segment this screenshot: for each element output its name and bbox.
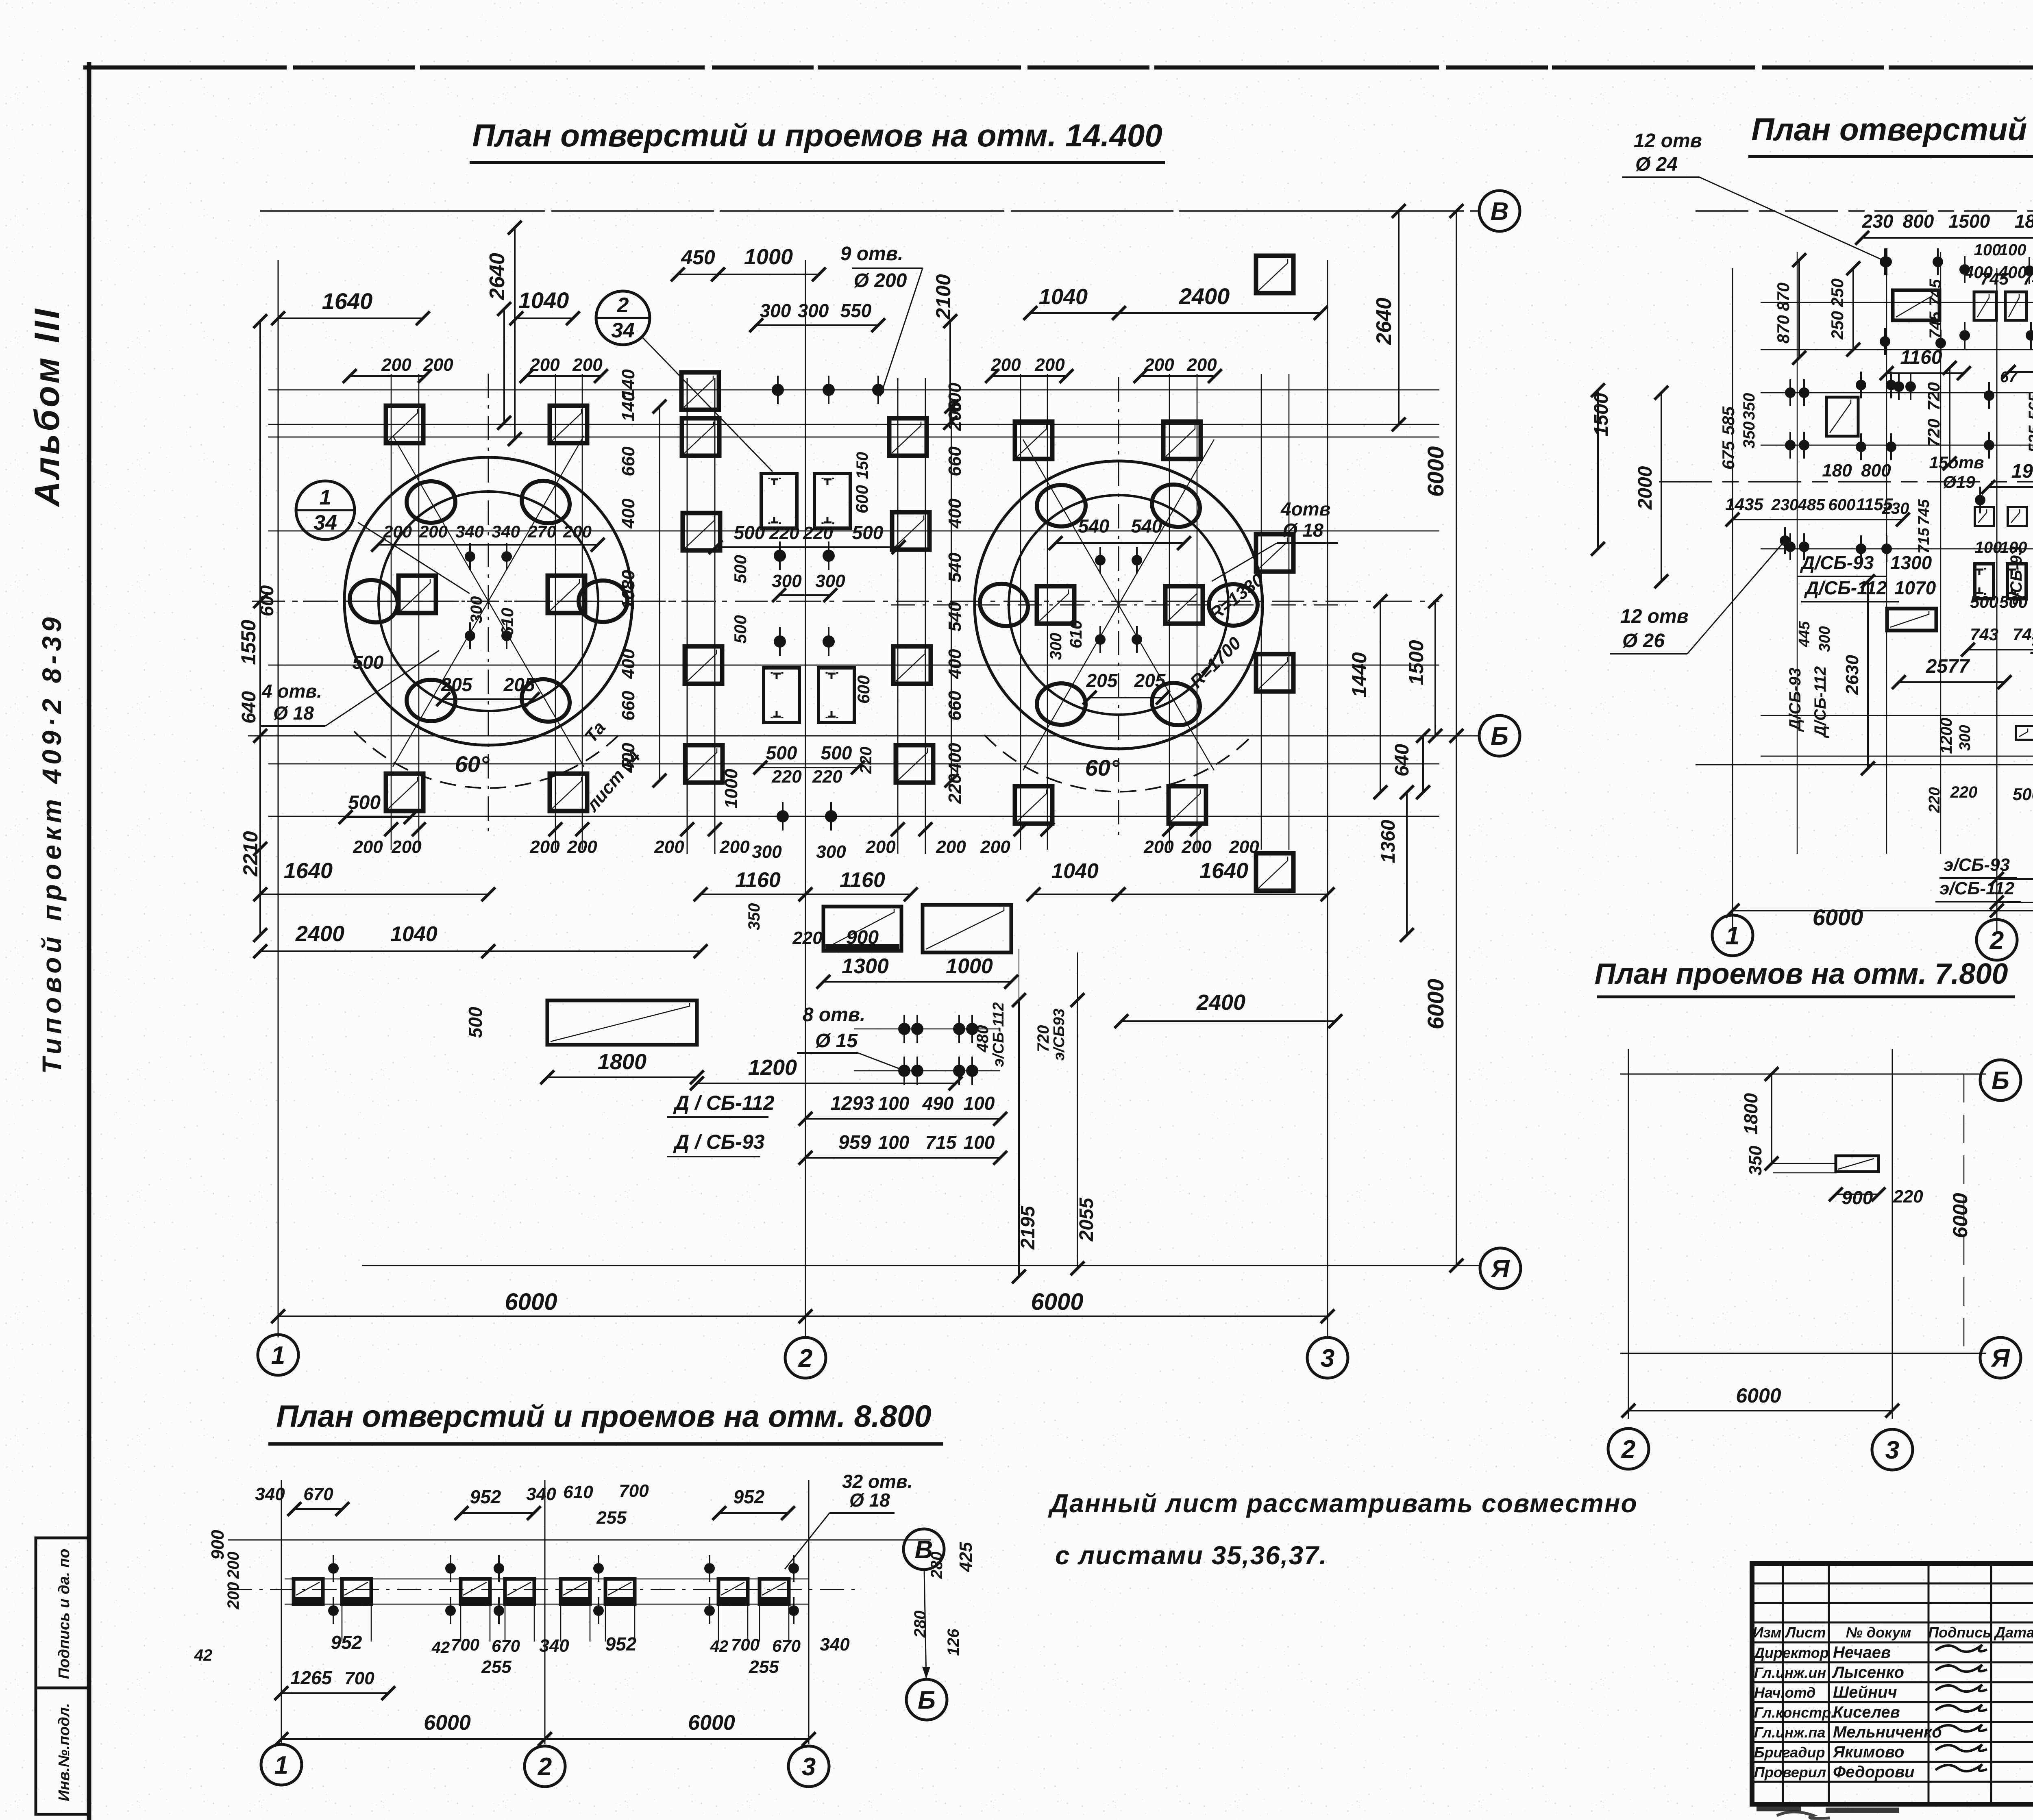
svg-text:610: 610: [498, 608, 517, 636]
svg-text:Я: Я: [1990, 1344, 2010, 1372]
bottom dim line right plan: [1733, 910, 2033, 911]
svg-text:500: 500: [1970, 592, 1998, 611]
svg-text:300: 300: [815, 571, 845, 591]
svg-text:300: 300: [1047, 633, 1065, 660]
svg-text:255: 255: [481, 1657, 512, 1677]
svg-text:220: 220: [771, 767, 802, 787]
extra chain ticks bottom row: [384, 822, 398, 836]
svg-text:540: 540: [1131, 515, 1162, 537]
svg-text:720: 720: [1924, 382, 1943, 411]
svg-text:220: 220: [812, 767, 842, 787]
grid bubble A: [1480, 1248, 1521, 1289]
svg-text:1550: 1550: [237, 620, 260, 665]
svg-text:800: 800: [1903, 211, 1934, 232]
svg-text:1000: 1000: [946, 955, 993, 978]
svg-text:500: 500: [2013, 785, 2033, 804]
square legs vertical lines: [687, 378, 688, 854]
svg-text:2577: 2577: [1926, 656, 1970, 677]
svg-text:№ докум: № докум: [1846, 1624, 1911, 1641]
svg-text:715: 715: [1915, 527, 1933, 553]
svg-text:340: 340: [455, 522, 484, 541]
svg-text:1080: 1080: [618, 570, 638, 610]
strip plan opening rects: [294, 1579, 323, 1604]
strip plan bubble 2: [525, 1746, 565, 1787]
svg-text:2640: 2640: [1372, 298, 1396, 345]
radial lines: [1119, 439, 1214, 605]
title block outer frame: [1752, 1563, 2033, 1804]
flag 2/34 with leader: [596, 291, 650, 345]
grid bubble 2 bottom: [785, 1337, 826, 1378]
svg-text:500: 500: [852, 522, 884, 543]
svg-text:1293: 1293: [831, 1093, 874, 1114]
4 bolt dots: [465, 551, 475, 562]
svg-text:Ø 18: Ø 18: [1283, 520, 1323, 541]
axis line 3 vertical: [1327, 260, 1328, 1337]
flag 1/34 with leader: [296, 481, 355, 539]
strip plan bubble V: [903, 1529, 944, 1570]
svg-text:959: 959: [838, 1132, 871, 1153]
svg-text:10отв: 10отв: [2030, 638, 2033, 657]
svg-text:1040: 1040: [390, 922, 438, 946]
svg-text:9 отв.: 9 отв.: [840, 243, 903, 265]
svg-text:700: 700: [344, 1668, 374, 1688]
svg-text:205: 205: [503, 674, 535, 695]
rect R9: [2016, 726, 2033, 740]
svg-text:200: 200: [383, 522, 412, 541]
svg-text:1000: 1000: [744, 245, 793, 269]
long rect 1800: [547, 1000, 697, 1045]
left side dim chain: [259, 321, 261, 935]
axis A horizontal right plan: [1696, 764, 2033, 765]
svg-text:Проверил: Проверил: [1754, 1764, 1826, 1781]
axis 2 vertical right plan: [1996, 268, 1998, 931]
svg-text:952: 952: [605, 1633, 637, 1655]
small plan bubble 3: [1872, 1429, 1913, 1470]
svg-text:640: 640: [1391, 744, 1413, 776]
svg-text:э/СБ-112: э/СБ-112: [990, 1002, 1007, 1067]
svg-text:660: 660: [945, 446, 965, 476]
centerlines: [261, 601, 716, 602]
circle centerline row dash-dot: [252, 601, 1439, 602]
svg-text:200: 200: [945, 401, 965, 431]
svg-text:800: 800: [1861, 461, 1891, 481]
svg-text:200: 200: [353, 837, 383, 857]
svg-text:610: 610: [1066, 620, 1085, 648]
4 bolt dots: [1095, 555, 1106, 565]
svg-text:500: 500: [348, 792, 381, 813]
svg-text:535: 535: [2026, 425, 2033, 452]
svg-text:870: 870: [1774, 315, 1793, 344]
svg-text:42: 42: [710, 1637, 729, 1655]
svg-text:126: 126: [945, 1629, 962, 1656]
svg-text:План отверстий и проемов на от: План отверстий и проемов на отм.17.100: [1751, 111, 2033, 147]
strip plan bubble 1: [261, 1744, 302, 1785]
svg-text:Данный лист рассматривать сов: Данный лист рассматривать совместно: [1048, 1489, 1638, 1518]
svg-text:200: 200: [419, 522, 448, 541]
svg-text:34: 34: [611, 319, 635, 342]
svg-text:6000: 6000: [424, 1711, 471, 1735]
svg-text:Б: Б: [918, 1686, 936, 1714]
svg-text:900: 900: [846, 927, 879, 948]
svg-text:425: 425: [956, 1542, 976, 1572]
right plan construction lines: [1761, 302, 2033, 303]
svg-text:Д / СБ-112: Д / СБ-112: [673, 1092, 775, 1114]
svg-text:1900: 1900: [2011, 461, 2033, 482]
svg-text:6000: 6000: [1031, 1289, 1083, 1315]
svg-text:1160: 1160: [1900, 347, 1942, 368]
svg-text:100: 100: [1975, 539, 2002, 557]
svg-text:200: 200: [567, 837, 597, 857]
svg-text:205: 205: [1086, 670, 1118, 691]
svg-text:610: 610: [563, 1482, 593, 1502]
svg-text:1800: 1800: [2015, 211, 2033, 232]
svg-text:6000: 6000: [1423, 446, 1448, 497]
svg-text:1: 1: [271, 1342, 285, 1370]
svg-text:715: 715: [925, 1132, 957, 1153]
svg-text:12 отв: 12 отв: [1634, 130, 1702, 152]
svg-text:Ø 24: Ø 24: [1635, 154, 1678, 175]
svg-text:1: 1: [320, 486, 331, 509]
svg-text:Подпись и да. по: Подпись и да. по: [56, 1549, 73, 1679]
axis B horizontal right plan: [1659, 481, 2033, 483]
svg-text:400: 400: [618, 498, 638, 529]
svg-text:200: 200: [936, 837, 966, 857]
svg-text:8 отв.: 8 отв.: [803, 1004, 865, 1026]
svg-text:Директор: Директор: [1753, 1644, 1829, 1661]
svg-text:230: 230: [1771, 496, 1799, 514]
svg-text:Д/СБ-93: Д/СБ-93: [1786, 668, 1804, 732]
strip plan connecting line rows: [285, 1579, 809, 1580]
svg-text:220: 220: [1893, 1187, 1923, 1207]
svg-text:900: 900: [1842, 1187, 1873, 1208]
svg-text:6000: 6000: [505, 1289, 557, 1315]
svg-text:2055: 2055: [1076, 1197, 1097, 1242]
svg-text:1300: 1300: [842, 955, 889, 978]
svg-text:200: 200: [1143, 837, 1174, 857]
svg-text:2000: 2000: [1635, 466, 1656, 510]
svg-text:2: 2: [798, 1344, 812, 1372]
svg-text:Ø19: Ø19: [1943, 472, 1975, 491]
svg-text:Якимово: Якимово: [1833, 1743, 1905, 1761]
svg-text:660: 660: [618, 691, 638, 721]
svg-text:200: 200: [563, 522, 592, 541]
svg-text:Д/СБ-93: Д/СБ-93: [1800, 552, 1874, 573]
svg-text:445: 445: [1796, 621, 1813, 647]
svg-text:2400: 2400: [295, 922, 344, 946]
svg-text:745: 745: [2023, 269, 2033, 288]
svg-text:э/СБ93: э/СБ93: [1051, 1009, 1068, 1061]
squares around right circle: [1015, 422, 1052, 459]
svg-text:План проемов на отм. 7.800: План проемов на отм. 7.800: [1595, 958, 2008, 990]
svg-text:220: 220: [792, 928, 823, 948]
svg-text:300: 300: [1816, 626, 1833, 652]
svg-text:350: 350: [745, 903, 763, 931]
strip plan dots: [328, 1563, 339, 1574]
svg-text:1040: 1040: [518, 287, 569, 313]
small plan bubble 2: [1608, 1429, 1649, 1469]
svg-text:340: 340: [526, 1484, 556, 1504]
svg-text:42: 42: [431, 1639, 450, 1657]
svg-text:490: 490: [922, 1093, 954, 1114]
svg-text:1160: 1160: [735, 868, 781, 892]
rect R8 hatched: [1887, 609, 1936, 631]
channel symbols center top pair: [761, 474, 797, 528]
svg-text:640: 640: [238, 691, 260, 724]
svg-text:220: 220: [1926, 787, 1943, 813]
svg-text:1160: 1160: [840, 868, 885, 892]
svg-text:1: 1: [274, 1751, 288, 1779]
svg-text:300: 300: [798, 300, 829, 321]
svg-text:952: 952: [734, 1486, 765, 1507]
svg-text:700: 700: [451, 1635, 479, 1654]
svg-text:Б: Б: [1992, 1067, 2009, 1095]
svg-text:2: 2: [1621, 1435, 1635, 1463]
svg-text:270: 270: [527, 522, 556, 541]
svg-text:150: 150: [853, 452, 871, 479]
svg-text:1300: 1300: [1890, 552, 1932, 573]
axis V horizontal right plan: [1696, 210, 2033, 212]
svg-text:2400: 2400: [1179, 283, 1230, 309]
svg-text:1800: 1800: [1740, 1093, 1761, 1135]
rect R6 R7 channel pair: [1975, 507, 1994, 526]
svg-text:Мельниченко: Мельниченко: [1833, 1723, 1942, 1741]
svg-text:745: 745: [1926, 311, 1944, 339]
svg-text:500: 500: [766, 742, 797, 763]
svg-text:250: 250: [1828, 278, 1847, 307]
small plan opening rect: [1836, 1156, 1878, 1172]
svg-text:500: 500: [1999, 592, 2028, 611]
svg-text:Киселев: Киселев: [1833, 1703, 1900, 1721]
svg-text:450: 450: [681, 246, 715, 269]
svg-text:745: 745: [1980, 269, 2009, 288]
svg-text:670: 670: [492, 1636, 520, 1655]
svg-text:6000: 6000: [1813, 905, 1863, 930]
strip plan centerline: [228, 1589, 858, 1590]
axis line B horizontal: [248, 735, 1480, 737]
bottom-left stamp box: [36, 1538, 89, 1814]
title block left table horizontals: [1752, 1583, 2033, 1585]
svg-text:500: 500: [353, 652, 384, 673]
svg-text:220: 220: [857, 747, 875, 774]
svg-text:2210: 2210: [239, 831, 262, 876]
svg-text:140: 140: [618, 391, 638, 422]
six bolt ovals: [579, 581, 627, 622]
svg-text:67: 67: [2000, 369, 2018, 386]
svg-text:400: 400: [945, 743, 965, 773]
svg-text:220: 220: [769, 523, 799, 543]
svg-text:Гл.инж.ин: Гл.инж.ин: [1754, 1664, 1826, 1681]
svg-text:200: 200: [719, 837, 750, 857]
page frame top border: [83, 65, 2033, 70]
svg-text:200: 200: [381, 355, 411, 375]
svg-text:2400: 2400: [1196, 990, 1245, 1015]
svg-text:1440: 1440: [1348, 652, 1371, 697]
svg-text:100: 100: [878, 1093, 910, 1114]
svg-text:720: 720: [1034, 1025, 1052, 1052]
svg-text:Ø 200: Ø 200: [854, 270, 907, 291]
svg-text:900: 900: [208, 1530, 228, 1560]
svg-text:1640: 1640: [322, 288, 373, 314]
svg-text:500: 500: [731, 555, 750, 583]
svg-text:2630: 2630: [1842, 655, 1862, 695]
svg-text:300: 300: [760, 300, 791, 321]
svg-text:660: 660: [945, 691, 965, 721]
svg-text:870: 870: [1774, 283, 1793, 311]
svg-text:1800: 1800: [598, 1050, 646, 1074]
svg-text:180: 180: [1822, 461, 1852, 481]
inner circle: [1009, 495, 1228, 715]
svg-text:4отв: 4отв: [1280, 498, 1330, 520]
svg-text:952: 952: [470, 1486, 501, 1507]
axis line 1 vertical: [278, 260, 279, 1337]
svg-text:600: 600: [1828, 496, 1856, 514]
svg-text:400: 400: [945, 649, 965, 679]
squares around left circle: [386, 406, 423, 443]
svg-text:200: 200: [572, 355, 603, 375]
svg-text:280: 280: [911, 1611, 929, 1638]
strip plan bubble B: [906, 1679, 947, 1720]
svg-text:Федорови: Федорови: [1833, 1763, 1915, 1781]
svg-text:1040: 1040: [1039, 285, 1088, 309]
centerlines: [891, 604, 1346, 606]
svg-text:Ø 18: Ø 18: [273, 702, 314, 724]
svg-text:400: 400: [618, 649, 638, 679]
svg-text:с листами 35,36,37.: с листами 35,36,37.: [1055, 1541, 1328, 1570]
svg-text:200: 200: [224, 1582, 242, 1610]
svg-text:2: 2: [617, 294, 629, 317]
axis line A horizontal: [362, 1265, 1480, 1266]
svg-text:600: 600: [854, 675, 873, 704]
svg-text:230: 230: [1882, 500, 1909, 518]
svg-text:В: В: [1491, 198, 1509, 226]
svg-text:340: 340: [820, 1635, 850, 1655]
squares middle-right column: [889, 418, 927, 456]
grid bubble V: [1479, 191, 1520, 231]
svg-text:Типовой проект 409·2 8-39: Типовой проект 409·2 8-39: [37, 613, 67, 1074]
svg-text:220: 220: [1950, 783, 1978, 801]
60 deg arc: [354, 731, 623, 788]
svg-text:Д/СБ-112: Д/СБ-112: [1811, 666, 1829, 738]
svg-text:1435: 1435: [1725, 495, 1763, 514]
svg-text:1000: 1000: [721, 769, 741, 809]
svg-text:1500: 1500: [1405, 640, 1428, 685]
svg-text:670: 670: [303, 1484, 333, 1504]
svg-text:100: 100: [964, 1093, 995, 1114]
svg-text:2100: 2100: [932, 274, 955, 320]
grid bubble 1 bottom: [258, 1335, 298, 1375]
svg-text:Я: Я: [1490, 1255, 1510, 1283]
strip plan axis verticals: [281, 1480, 282, 1744]
svg-text:2195: 2195: [1017, 1205, 1039, 1250]
grid bubble B: [1479, 715, 1520, 756]
svg-text:700: 700: [731, 1635, 760, 1654]
svg-text:6000: 6000: [1423, 979, 1448, 1030]
svg-text:60°: 60°: [1085, 755, 1120, 781]
svg-text:660: 660: [618, 446, 638, 476]
svg-text:12 отв: 12 отв: [1620, 606, 1689, 627]
svg-text:4 отв.: 4 отв.: [261, 681, 322, 702]
svg-text:745: 745: [1926, 279, 1944, 306]
svg-text:540: 540: [945, 552, 965, 583]
svg-text:1040: 1040: [1051, 859, 1099, 883]
svg-text:500: 500: [731, 615, 750, 644]
svg-text:745: 745: [1915, 499, 1933, 525]
svg-text:6000: 6000: [1736, 1384, 1781, 1407]
axis line V horizontal: [260, 210, 1480, 212]
svg-text:1640: 1640: [284, 859, 333, 883]
squares far-right column: [1256, 256, 1293, 293]
svg-text:480: 480: [974, 1025, 992, 1053]
svg-text:100: 100: [2000, 539, 2027, 557]
radial lines: [488, 436, 584, 601]
grid bubble 1 right plan: [1712, 915, 1753, 956]
svg-text:300: 300: [816, 842, 846, 862]
svg-text:2640: 2640: [485, 253, 509, 300]
small plan dashed chain: [1963, 1074, 1965, 1353]
svg-text:Гл.констр.: Гл.констр.: [1754, 1704, 1835, 1721]
svg-text:1500: 1500: [1591, 393, 1612, 436]
svg-text:400: 400: [945, 498, 965, 529]
svg-text:3: 3: [1321, 1344, 1334, 1372]
svg-text:220: 220: [803, 523, 833, 543]
squares middle-left column: [681, 372, 719, 410]
small plan bubble A: [1980, 1337, 2021, 1378]
60 deg arc: [984, 735, 1253, 792]
svg-text:585: 585: [1719, 406, 1738, 435]
svg-text:Альбом III: Альбом III: [28, 307, 67, 507]
svg-text:255: 255: [749, 1657, 779, 1677]
small plan bubble B: [1980, 1060, 2021, 1100]
svg-text:200: 200: [1229, 837, 1259, 857]
small plan axes: [1628, 1049, 1629, 1419]
svg-text:255: 255: [596, 1508, 627, 1528]
svg-text:500: 500: [465, 1007, 486, 1038]
svg-text:500: 500: [734, 522, 765, 543]
svg-text:670: 670: [772, 1636, 801, 1655]
svg-text:200: 200: [980, 837, 1010, 857]
svg-text:1200: 1200: [748, 1055, 797, 1080]
grid bubble 3 bottom: [1307, 1337, 1348, 1378]
outer circle: [344, 457, 632, 745]
svg-text:350: 350: [1740, 393, 1758, 420]
rect R1 hatched: [1893, 290, 1939, 320]
rect R2 R3: [1974, 292, 1996, 320]
svg-text:15отв: 15отв: [1929, 453, 1984, 472]
six bolt ovals: [1209, 584, 1258, 626]
svg-text:Инв.№.подл.: Инв.№.подл.: [56, 1703, 73, 1801]
svg-text:2: 2: [538, 1753, 552, 1781]
svg-text:42: 42: [194, 1646, 213, 1664]
svg-text:280: 280: [928, 1552, 946, 1579]
svg-text:200: 200: [1181, 837, 1212, 857]
inner circle: [379, 491, 598, 711]
svg-text:200: 200: [654, 837, 684, 857]
svg-text:1070: 1070: [1894, 577, 1936, 598]
svg-text:Нечаев: Нечаев: [1833, 1644, 1891, 1661]
svg-text:Бригадир: Бригадир: [1754, 1744, 1825, 1761]
svg-text:200: 200: [529, 355, 560, 375]
svg-text:540: 540: [945, 602, 965, 632]
svg-text:540: 540: [1078, 515, 1110, 537]
svg-text:Ø 26: Ø 26: [1622, 630, 1665, 652]
center bolt dots top row: [772, 384, 784, 396]
svg-text:100: 100: [1974, 241, 2001, 259]
svg-text:350: 350: [1746, 1146, 1765, 1176]
channel symbols center bottom pair: [764, 668, 799, 722]
strip plan legs below rects: [342, 1604, 343, 1642]
svg-text:100: 100: [1999, 241, 2026, 259]
svg-text:Шейнич: Шейнич: [1833, 1683, 1897, 1701]
